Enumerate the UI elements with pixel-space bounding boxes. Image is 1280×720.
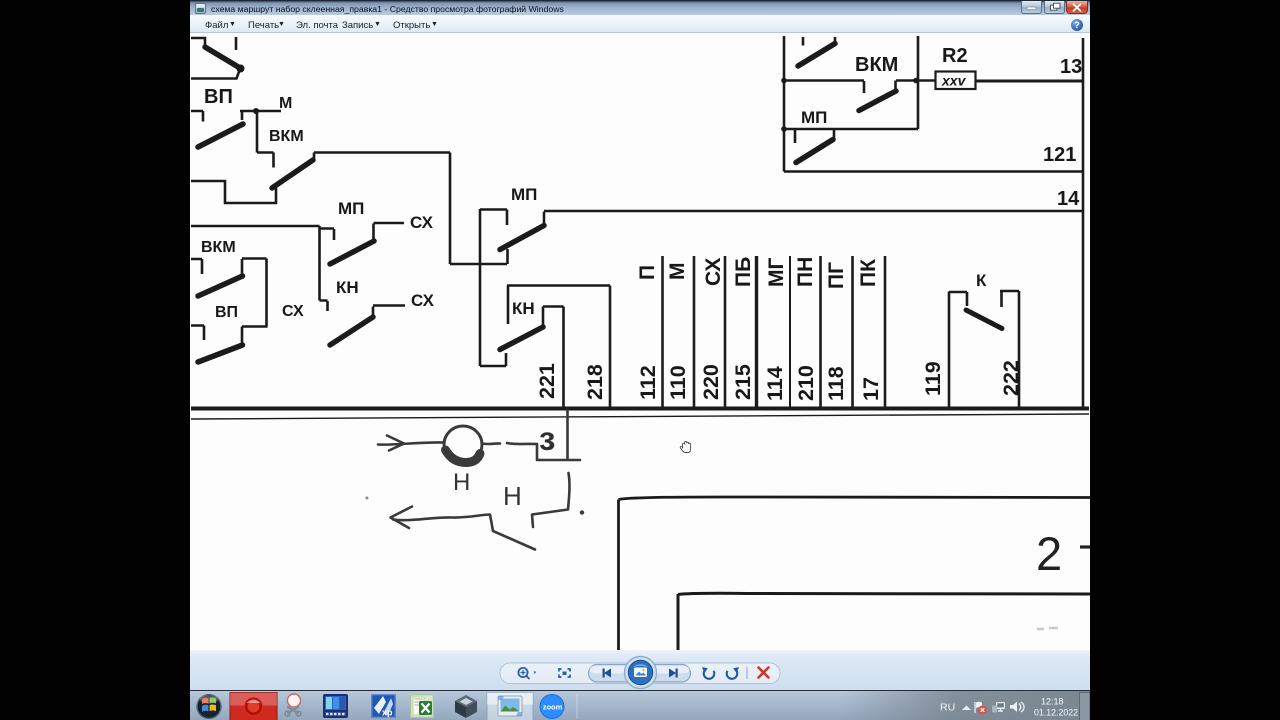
- wire entry y325: [191, 326, 204, 341]
- wire y80 right part: [896, 79, 916, 82]
- taskbar: [190, 690, 1090, 720]
- svg-text:СХ: СХ: [282, 303, 304, 320]
- faint marks: [1037, 628, 1058, 629]
- next button icon: [669, 669, 678, 678]
- wire long y211 to right border: [544, 210, 1083, 213]
- frame outer rect (page 2): [619, 497, 1091, 650]
- svg-text:МП: МП: [801, 108, 827, 127]
- pencil vertical under bus: [566, 410, 569, 460]
- pencil arrow left shaft: [393, 515, 535, 550]
- svg-text:ВП: ВП: [215, 304, 238, 321]
- contact ВП blade end blob: [237, 65, 245, 73]
- menu bar: [190, 15, 1090, 33]
- frame inner rect (page 2): [678, 593, 1090, 650]
- rotate cw button: [727, 667, 739, 679]
- svg-text:zoom: zoom: [543, 702, 563, 711]
- resistor R2 body: [936, 72, 976, 90]
- svg-text:ВП: ВП: [204, 86, 233, 108]
- play slideshow big button: [625, 657, 657, 689]
- contact М blade: [198, 124, 243, 147]
- wire drop 218: [609, 286, 612, 408]
- tray network icon: [992, 702, 1005, 713]
- smudge dot: [366, 497, 369, 500]
- wire 13 line: [976, 80, 1083, 83]
- hand cursor: [680, 441, 690, 452]
- contact (top, cropped) blade: [798, 44, 835, 67]
- contact ВКМ2 blade: [198, 276, 243, 296]
- pencil arrow right shaft: [378, 442, 444, 444]
- contact ВКМ3 riser: [894, 81, 897, 92]
- white photo canvas with schematic: [190, 33, 1090, 650]
- pencil arrow left head: [391, 507, 413, 529]
- junction x784 y80: [781, 78, 787, 84]
- show desktop button: [1080, 693, 1091, 720]
- junction y80 x918: [913, 78, 919, 84]
- contact К right leg: [1000, 291, 1019, 408]
- fit to window button: [559, 669, 570, 677]
- previous button icon: [603, 669, 612, 678]
- taskbar divider: [576, 694, 578, 719]
- contact ВП blade: [205, 47, 240, 68]
- wire drop 221: [562, 307, 565, 408]
- wire node М: [240, 110, 281, 113]
- svg-text:М: М: [279, 95, 292, 112]
- start orb: [197, 694, 222, 719]
- pencil squiggle: [482, 443, 537, 444]
- svg-text:МП: МП: [338, 199, 364, 218]
- toolbar divider: [746, 667, 748, 680]
- contact ВКМ3 blade: [859, 91, 896, 111]
- bus wire М: [693, 256, 696, 408]
- contact МП3 blade: [796, 140, 833, 163]
- contact ВКМ riser: [313, 153, 316, 161]
- help button: [1071, 19, 1083, 31]
- wire to R2: [916, 79, 935, 82]
- contact МП1 blade: [330, 241, 374, 264]
- svg-text:17: 17: [859, 377, 883, 401]
- wire vertical x918: [917, 36, 920, 129]
- svg-text:СХ: СХ: [411, 291, 435, 310]
- pencil circle: [444, 426, 482, 463]
- delete button red X: [759, 668, 769, 678]
- svg-text:110: 110: [666, 365, 690, 400]
- taskbar app: movie maker: [323, 694, 348, 718]
- svg-text:114: 114: [763, 366, 787, 401]
- wire to net СХ lower: [373, 304, 405, 307]
- wire vertical x450 down to y264: [450, 153, 507, 265]
- taskbar app: excel: [410, 694, 434, 718]
- svg-text:ВКМ: ВКМ: [269, 128, 304, 145]
- contact КН1 blade: [330, 317, 373, 345]
- svg-text:КН: КН: [512, 299, 535, 318]
- pencil circle thick bottom: [446, 450, 481, 463]
- svg-text:МГ: МГ: [765, 258, 788, 287]
- wire vertical x480: [479, 209, 482, 366]
- bus wire СХ: [724, 256, 727, 408]
- svg-text:Н: Н: [503, 481, 522, 511]
- bus wire ПГ: [851, 256, 854, 408]
- viewer bottom toolbar: [190, 650, 1090, 690]
- contact К left leg: [949, 292, 967, 408]
- contact (top, cropped) tick: [802, 37, 805, 46]
- pencil arrow right head: [387, 436, 404, 451]
- contact МП2 riser: [543, 212, 546, 227]
- photo viewer window title bar: [190, 0, 1090, 15]
- contact ВКМ blade (upper-left): [272, 160, 313, 188]
- wire КН2 output: [543, 305, 564, 308]
- svg-text:14: 14: [1057, 188, 1080, 210]
- svg-text:М: М: [666, 263, 689, 281]
- svg-text:RU: RU: [940, 702, 955, 714]
- wire y129: [784, 128, 918, 131]
- contact К blade: [966, 310, 1002, 329]
- contact ВП2 blade: [198, 345, 243, 362]
- taskbar app: virtualbox: [455, 695, 477, 718]
- svg-text:218: 218: [583, 364, 607, 400]
- prev-next group pill: [589, 665, 691, 683]
- contact КН2 blade: [500, 327, 543, 350]
- wire riser x266: [265, 259, 268, 327]
- svg-text:К: К: [976, 271, 987, 290]
- contact (top, cropped) hook: [834, 37, 837, 44]
- junction node М: [253, 108, 259, 114]
- tray action center flag: [975, 702, 987, 715]
- svg-text:112: 112: [636, 365, 660, 400]
- wire entry y259: [191, 259, 202, 274]
- svg-text:xp: xp: [382, 708, 393, 718]
- svg-text:СХ: СХ: [702, 258, 725, 286]
- bus wire ПН: [819, 256, 822, 408]
- wire left entry y111: [191, 111, 203, 122]
- wire long y152 to node: [314, 151, 450, 154]
- svg-text:СХ: СХ: [410, 213, 434, 232]
- bus wire МГ: [789, 256, 791, 408]
- taskbar app: zoom: [540, 695, 564, 719]
- svg-text:ВКМ: ВКМ: [201, 239, 236, 256]
- contact МП1 riser: [372, 224, 375, 242]
- taskbar app: snip/scissors: [285, 694, 301, 716]
- wire МП2 fixed stub: [480, 210, 507, 226]
- contact КН1 riser: [372, 307, 375, 318]
- pencil step to З: [537, 444, 580, 460]
- contact ВКМ2 riser and wire: [242, 259, 267, 277]
- svg-text:215: 215: [731, 364, 755, 400]
- svg-text:КН: КН: [336, 278, 359, 297]
- wire 121 line: [784, 170, 1083, 173]
- svg-text:210: 210: [794, 365, 818, 401]
- svg-text:МП: МП: [511, 185, 537, 204]
- svg-text:2: 2: [1036, 527, 1062, 580]
- contact МП2 lower connector: [506, 249, 509, 264]
- wire loop 218: [507, 286, 610, 325]
- pencil dot: [580, 510, 584, 514]
- wire loop bottom x480: [480, 353, 506, 366]
- svg-text:R2: R2: [942, 45, 968, 67]
- svg-text:222: 222: [999, 360, 1023, 396]
- contact МП3 riser: [833, 130, 836, 141]
- tray speaker icon: [1010, 702, 1024, 713]
- wire step below ВКМ: [191, 181, 276, 203]
- rotate ccw button: [702, 667, 714, 679]
- label 2 dash: [1080, 545, 1090, 548]
- svg-text:221: 221: [535, 363, 559, 399]
- svg-text:01.12.2022: 01.12.2022: [1034, 708, 1078, 718]
- tray chevron: [962, 706, 971, 711]
- left black pillarbox bar: [0, 0, 190, 720]
- svg-text:119: 119: [921, 361, 945, 396]
- contact ВП (top-left) input wire: [191, 38, 205, 47]
- wire long y226: [191, 225, 320, 228]
- svg-text:ПБ: ПБ: [732, 257, 755, 287]
- contact МП2 blade: [500, 226, 544, 250]
- svg-text:12:18: 12:18: [1041, 697, 1064, 707]
- bus wire ПК: [884, 256, 887, 408]
- svg-text:xxv: xxv: [941, 73, 967, 89]
- taskbar app: photo viewer (active window): [487, 693, 533, 720]
- wire М junction down: [257, 111, 274, 168]
- wire vertical x320: [320, 226, 328, 311]
- pencil hook right: [532, 473, 569, 527]
- junction x784 y129: [781, 126, 787, 132]
- svg-text:13: 13: [1060, 56, 1082, 78]
- svg-text:118: 118: [824, 366, 848, 401]
- wire right border: [1082, 38, 1085, 408]
- wire stub МП1: [320, 229, 334, 241]
- svg-text:П: П: [636, 265, 659, 280]
- svg-text:з: з: [539, 420, 555, 457]
- contact КН2 riser: [542, 307, 545, 328]
- pencil annotations: [378, 410, 584, 550]
- svg-text:Н: Н: [453, 469, 470, 496]
- contact МП3 tick: [794, 130, 797, 143]
- bus wire П: [661, 256, 664, 408]
- wire return below ВП: [191, 69, 240, 79]
- magnifier zoom button: [518, 668, 536, 679]
- taskbar app: xp tool: [371, 694, 396, 718]
- svg-text:121: 121: [1043, 144, 1076, 166]
- svg-text:220: 220: [699, 364, 723, 400]
- contact ВП fixed terminal tick: [235, 37, 238, 50]
- wire to net СХ upper: [374, 222, 405, 225]
- svg-text:ПН: ПН: [794, 257, 817, 287]
- taskbar app: red browser (active): [230, 693, 277, 720]
- contact М fixed tick: [241, 112, 244, 120]
- svg-text:ВКМ: ВКМ: [855, 54, 898, 76]
- bus bottom thick line: [191, 407, 1089, 411]
- svg-text:ПГ: ПГ: [825, 262, 848, 289]
- contact ВП2 riser and wire: [242, 327, 268, 346]
- svg-text:ПК: ПК: [857, 259, 880, 287]
- toolbar pill: [500, 663, 780, 684]
- right black pillarbox bar: [1090, 0, 1280, 720]
- bus wire ПБ: [755, 256, 758, 408]
- wire y80 left part: [784, 81, 864, 94]
- wire vertical x784: [783, 36, 786, 172]
- bus bottom thin line: [191, 414, 1089, 419]
